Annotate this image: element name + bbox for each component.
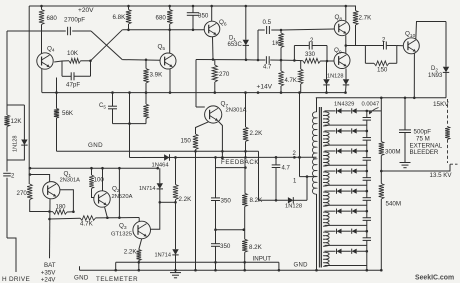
svg-text:1N128: 1N128 (285, 204, 302, 210)
svg-text:+24V: +24V (41, 276, 56, 283)
svg-text:2700pF: 2700pF (64, 17, 85, 24)
svg-text:8.2K: 8.2K (249, 244, 263, 251)
svg-text:13.5 KV: 13.5 KV (430, 172, 453, 179)
svg-text:350: 350 (221, 197, 232, 204)
svg-text:C5: C5 (99, 103, 106, 109)
svg-text:10K: 10K (67, 50, 79, 57)
svg-text:INPUT: INPUT (253, 256, 272, 263)
svg-text:4.7: 4.7 (263, 65, 272, 71)
svg-text:330: 330 (305, 52, 316, 58)
svg-text:653C: 653C (228, 42, 243, 48)
svg-text:150: 150 (377, 67, 388, 74)
svg-text:0.0047: 0.0047 (362, 101, 380, 107)
svg-text:D2: D2 (431, 66, 438, 72)
svg-text:540M: 540M (386, 201, 401, 208)
svg-text:47pF: 47pF (66, 82, 80, 89)
svg-text:1N128: 1N128 (13, 136, 19, 152)
svg-text:300M: 300M (385, 149, 400, 156)
svg-text:BLEEDER: BLEEDER (410, 149, 439, 156)
svg-text:D1: D1 (229, 36, 236, 42)
svg-text:500pF: 500pF (414, 129, 432, 136)
svg-text:3.9K: 3.9K (150, 72, 164, 79)
svg-text:150: 150 (181, 138, 192, 145)
svg-text:180: 180 (56, 205, 67, 211)
svg-text:2.2K: 2.2K (179, 196, 193, 203)
svg-text:SeekIC.com: SeekIC.com (415, 275, 454, 282)
svg-text:+20V: +20V (78, 7, 94, 14)
svg-text:0.5: 0.5 (263, 19, 272, 26)
svg-text:1N714: 1N714 (155, 253, 171, 259)
svg-text:2N520A: 2N520A (112, 194, 133, 200)
svg-text:270: 270 (17, 190, 28, 197)
svg-text:6.8K: 6.8K (113, 14, 127, 21)
svg-text:350: 350 (198, 13, 209, 20)
svg-text:2N301A: 2N301A (60, 178, 80, 184)
svg-text:680: 680 (47, 15, 58, 22)
svg-text:1N4329: 1N4329 (334, 101, 354, 107)
svg-text:2.7K: 2.7K (359, 15, 373, 22)
svg-text:GND: GND (74, 275, 89, 282)
svg-text:680: 680 (156, 15, 167, 22)
svg-text:+14V: +14V (257, 84, 273, 91)
svg-text:2.2K: 2.2K (250, 130, 264, 137)
svg-text:GND: GND (88, 142, 103, 149)
svg-text:GT1325: GT1325 (111, 232, 132, 238)
svg-text:56K: 56K (62, 110, 74, 117)
svg-text:TELEMETER: TELEMETER (96, 276, 138, 283)
svg-text:2.2K: 2.2K (124, 249, 138, 256)
svg-text:4.7K: 4.7K (80, 221, 94, 228)
svg-text:4.7K: 4.7K (285, 78, 297, 84)
svg-text:BAT: BAT (44, 262, 56, 269)
svg-text:GND: GND (294, 263, 309, 269)
svg-text:1N714: 1N714 (139, 186, 155, 192)
svg-text:15KV: 15KV (433, 101, 449, 108)
svg-text:12K: 12K (11, 118, 23, 125)
svg-text:1N128: 1N128 (327, 74, 343, 80)
svg-text:1N93: 1N93 (428, 73, 443, 79)
svg-text:2N301A: 2N301A (226, 108, 247, 114)
svg-text:1K: 1K (272, 41, 279, 47)
svg-text:1N464: 1N464 (152, 163, 170, 169)
svg-text:4.7: 4.7 (282, 166, 291, 172)
svg-text:8.2K: 8.2K (250, 197, 264, 204)
svg-text:FEEDBACK: FEEDBACK (221, 159, 259, 166)
svg-text:270: 270 (219, 71, 230, 78)
svg-text:350: 350 (220, 243, 231, 250)
svg-text:H DRIVE: H DRIVE (2, 276, 30, 283)
svg-text:+35V: +35V (41, 269, 56, 276)
